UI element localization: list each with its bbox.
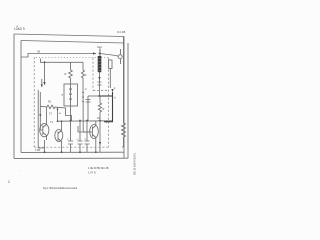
svg-text:C4 1B: C4 1B — [117, 30, 125, 34]
svg-text:1.0E 4FHD MA 1B: 1.0E 4FHD MA 1B — [88, 167, 109, 170]
svg-text:R1: R1 — [48, 100, 52, 104]
svg-text:DE 10 2004 015A1: DE 10 2004 015A1 — [132, 153, 136, 175]
svg-text:R: R — [103, 107, 105, 111]
svg-text:2: 2 — [8, 180, 10, 184]
svg-text:T-80: T-80 — [35, 148, 41, 152]
svg-text:36: 36 — [37, 49, 41, 53]
svg-text:R: R — [65, 72, 67, 76]
svg-text:41a: 41a — [97, 45, 102, 49]
svg-text:1.07 N: 1.07 N — [88, 170, 96, 174]
svg-text:C: C — [85, 87, 87, 91]
svg-text:.: . — [20, 168, 21, 172]
svg-text:Fig.1: Blockschaltbild-schemat: Fig.1: Blockschaltbild-schematik — [43, 187, 78, 190]
